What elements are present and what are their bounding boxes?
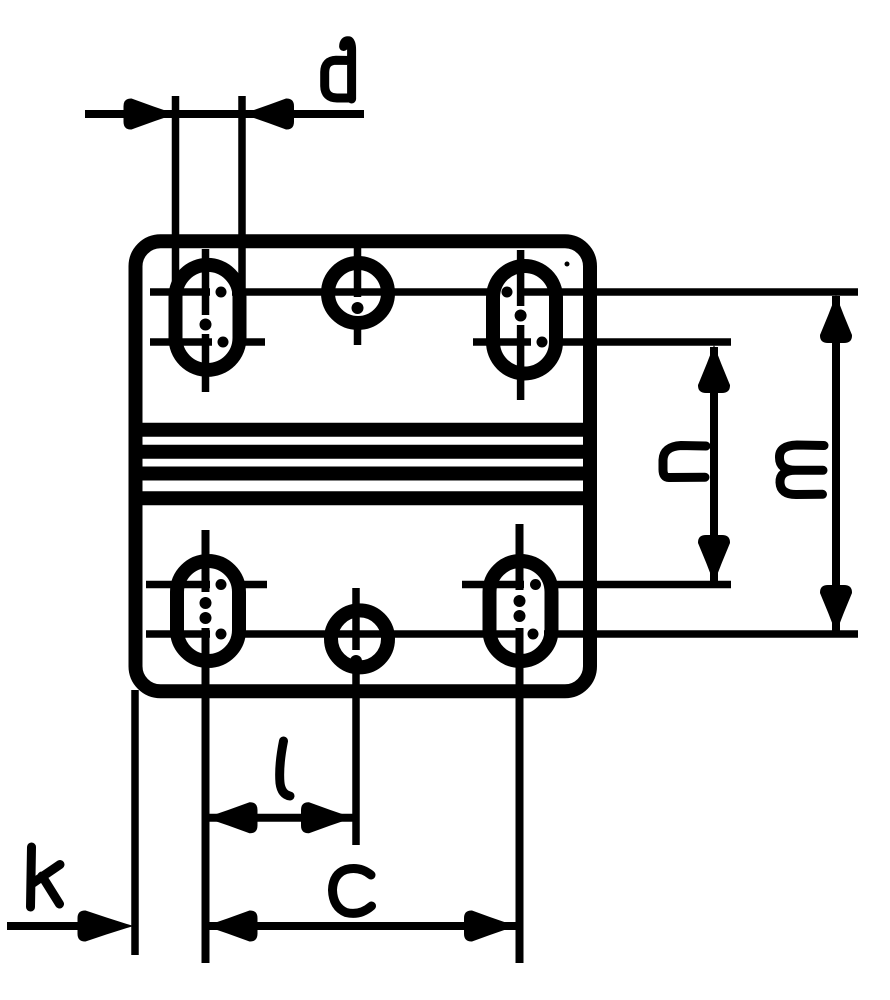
hinge line 3 bbox=[130, 467, 596, 481]
centerline dot bottom-right slot lower bbox=[528, 629, 539, 640]
label k bbox=[31, 847, 61, 907]
dimension d line bbox=[85, 110, 364, 118]
centerline dot bottom-right slot upper bbox=[530, 579, 541, 590]
centerline dot top-left slot lower bbox=[218, 337, 229, 348]
hinge line 1 bbox=[130, 423, 596, 437]
arrow l right bbox=[301, 802, 353, 833]
vertical centerline dot top-center hole bbox=[352, 302, 364, 314]
centerline dot bottom-left slot upper bbox=[216, 579, 227, 590]
slot hole bottom-left bbox=[177, 561, 239, 661]
label d bbox=[325, 41, 352, 99]
centerline bottom row upper bbox=[146, 581, 731, 589]
vertical centerline dots bottom-left slot bbox=[200, 597, 212, 609]
dimension k line bbox=[7, 922, 90, 930]
arrow d right bbox=[242, 98, 294, 129]
speck top-right corner bbox=[565, 262, 570, 267]
centerline bottom row lower bbox=[146, 630, 858, 638]
arrow c left bbox=[206, 910, 258, 941]
centerline top row upper bbox=[150, 288, 858, 296]
vertical centerline dot top-right slot bbox=[515, 310, 527, 322]
plate outline bbox=[136, 241, 591, 691]
centerline dot top-right slot lower bbox=[537, 337, 548, 348]
hinge line 4 bbox=[130, 491, 596, 505]
arrow c right bbox=[464, 910, 516, 941]
arrow l left bbox=[206, 802, 258, 833]
centerline dot top-right slot upper bbox=[502, 287, 513, 298]
extension line d right bbox=[238, 96, 246, 345]
vertical centerline / extension bottom-left slot bbox=[202, 530, 210, 963]
vertical centerline top-right slot bbox=[517, 250, 525, 400]
centerline top row lower bbox=[150, 338, 731, 346]
label m (rotated) bbox=[779, 445, 824, 495]
arrow n top bbox=[698, 345, 730, 393]
vertical centerline dot top-left slot bbox=[200, 319, 212, 331]
vertical centerline dot bottom-center hole bbox=[350, 655, 362, 667]
round hole bottom-center bbox=[331, 610, 388, 667]
centerline dot top-left slot upper bbox=[216, 287, 227, 298]
vertical centerline top-center hole bbox=[354, 247, 362, 345]
arrow m bottom bbox=[820, 585, 852, 633]
arrow m top bbox=[820, 295, 852, 343]
dimension m line bbox=[832, 296, 840, 631]
label c bbox=[333, 869, 372, 914]
dimension c line bbox=[206, 922, 517, 930]
extension line plate left edge below bbox=[131, 690, 139, 955]
label n (rotated) bbox=[663, 446, 706, 478]
arrow n bottom bbox=[698, 535, 730, 583]
round hole top-center bbox=[328, 263, 388, 323]
dimension n line bbox=[710, 347, 718, 581]
arrow k bbox=[78, 910, 134, 941]
slot hole bottom-right bbox=[490, 561, 552, 661]
extension line d left bbox=[172, 96, 180, 314]
label l bbox=[280, 741, 290, 796]
slot hole top-left bbox=[176, 265, 240, 370]
arrow d left bbox=[124, 98, 176, 129]
vertical centerline dots bottom-right slot bbox=[514, 595, 526, 607]
vertical centerline top-left slot bbox=[202, 249, 210, 392]
dimension l line bbox=[206, 814, 354, 822]
hinge line 2 bbox=[135, 445, 590, 459]
vertical centerline / extension bottom-center hole bbox=[352, 588, 360, 845]
vertical centerline / extension bottom-right slot bbox=[516, 524, 524, 963]
centerline dot bottom-left slot lower bbox=[216, 629, 227, 640]
slot hole top-right bbox=[493, 266, 556, 374]
